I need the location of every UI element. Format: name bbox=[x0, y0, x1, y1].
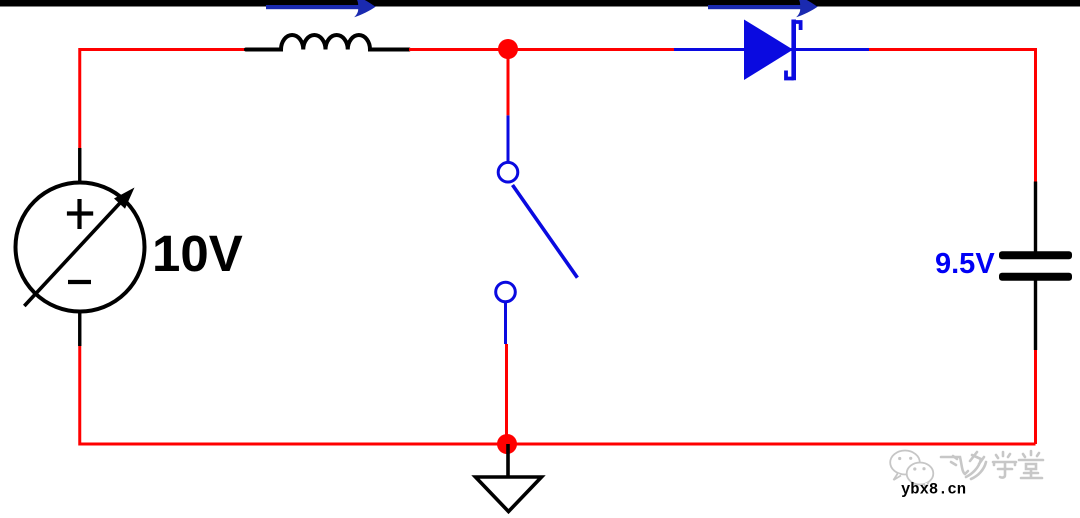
wire: middle branch lower (red) bbox=[505, 344, 508, 444]
wire: source top lead (black) bbox=[78, 148, 81, 183]
watermark text 飞多学堂 (hand-drawn strokes) bbox=[941, 451, 1043, 479]
diode D1 (Schottky) bbox=[744, 20, 801, 81]
wire: bottom rail (red) bbox=[80, 443, 1036, 446]
wire: switch lower lead (blue) bbox=[504, 302, 507, 344]
wire: right vertical lower (red) bbox=[1034, 350, 1037, 444]
top border bar bbox=[0, 0, 1080, 7]
capacitor C1 bbox=[999, 251, 1072, 281]
voltage source V1 bbox=[16, 183, 145, 312]
svg-text:ybx8.cn: ybx8.cn bbox=[901, 481, 966, 499]
watermark text ybx8.cn bbox=[901, 481, 966, 499]
svg-text:10V: 10V bbox=[152, 225, 243, 282]
wire: top-left segment (source to inductor) red bbox=[80, 50, 246, 149]
wire: diode to top-right corner (red) bbox=[869, 50, 1036, 182]
wire: left vertical lower (red) bbox=[78, 346, 81, 446]
node A (top junction dot) bbox=[498, 39, 518, 59]
inductor L1 bbox=[246, 35, 409, 50]
wire: node A to switch (red) bbox=[507, 50, 510, 116]
wire: inductor to node A (red) bbox=[409, 48, 674, 51]
wire: diode horizontal (blue) bbox=[674, 48, 869, 51]
current arrow A2 (diode current, blue annotation) bbox=[708, 0, 818, 17]
watermark WeChat icon bbox=[890, 451, 933, 489]
label C1 value 9.5V bbox=[935, 248, 995, 280]
wire: capacitor bottom lead (black) bbox=[1034, 281, 1037, 351]
wire: capacitor top lead (black) bbox=[1034, 182, 1037, 253]
ground bbox=[476, 444, 542, 512]
node B (ground junction dot) bbox=[497, 434, 517, 454]
switch S1 bbox=[496, 162, 578, 301]
svg-text:9.5V: 9.5V bbox=[935, 248, 995, 280]
wire: switch upper lead (blue) bbox=[507, 115, 510, 162]
wire: source bottom lead (black) bbox=[78, 311, 81, 346]
current arrow A1 (inductor current, blue annotation) bbox=[266, 0, 376, 17]
label V1 value 10V bbox=[152, 225, 243, 282]
